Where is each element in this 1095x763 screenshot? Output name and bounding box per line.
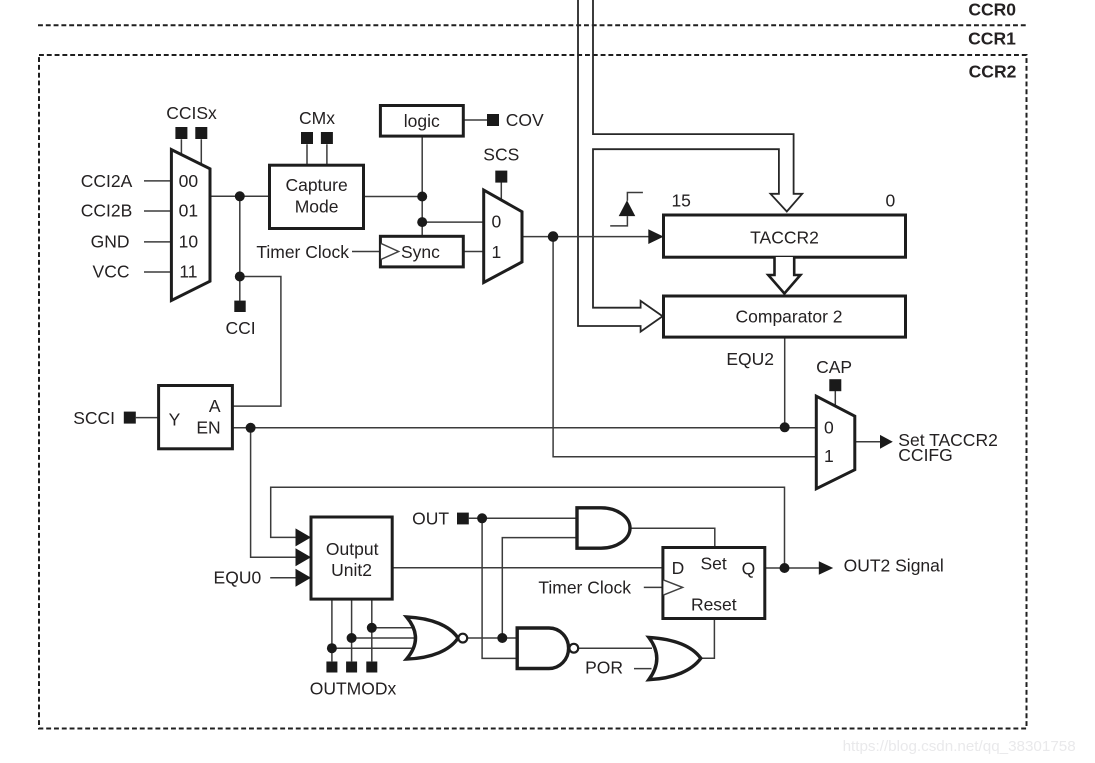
junction dot EQU2 / CAP mux 0	[780, 422, 790, 432]
svg-text:Set: Set	[700, 554, 726, 574]
NAND gate body	[517, 628, 568, 669]
input triangle 3 of Output Unit2 (EQU0)	[296, 569, 312, 587]
wire NOR output branch up to AND input	[502, 538, 577, 638]
arrow OUT2 Signal	[819, 561, 833, 574]
svg-text:A: A	[209, 396, 221, 416]
NOR gate bubble	[458, 634, 467, 643]
svg-text:OUT2 Signal: OUT2 Signal	[844, 556, 944, 576]
svg-text:D: D	[672, 558, 685, 578]
svg-text:Timer Clock: Timer Clock	[256, 242, 349, 262]
wire Q output	[765, 567, 819, 569]
comparator Comparator 2	[664, 296, 906, 337]
svg-text:01: 01	[179, 201, 198, 221]
AND gate	[577, 508, 630, 548]
wire CCI pin stub	[239, 277, 241, 301]
block Capture Mode	[270, 165, 364, 228]
input triangle 2 of Output Unit2	[296, 548, 312, 566]
block Sync	[380, 236, 463, 267]
pin square CMx 2	[321, 132, 333, 144]
wire EQU2 vertical	[784, 337, 786, 427]
wire CAP mux output	[855, 441, 881, 443]
svg-text:Capture: Capture	[285, 175, 347, 195]
junction dot NOR output	[497, 633, 507, 643]
junction dot OUTMOD 2	[347, 633, 357, 643]
wire NOR output to NAND input	[467, 637, 518, 639]
OR gate	[649, 637, 701, 679]
svg-text:EQU2: EQU2	[726, 349, 774, 369]
wire OR output to Reset	[701, 619, 715, 659]
svg-text:CCR1: CCR1	[968, 28, 1016, 48]
svg-text:CCR0: CCR0	[968, 0, 1016, 19]
input triangle 1 of Output Unit2	[296, 528, 312, 546]
hollow arrow TACCR2 to Comparator 2	[768, 257, 800, 294]
svg-text:Output: Output	[326, 539, 379, 559]
wire OUTMODx vertical 2	[351, 599, 353, 661]
pin square OUTMODx 2	[346, 662, 357, 673]
pin square CMx 1	[301, 132, 313, 144]
wire GND stub	[144, 241, 172, 243]
block logic	[380, 106, 463, 137]
mux CAP	[816, 396, 855, 489]
svg-text:GND: GND	[91, 231, 130, 251]
svg-text:CCI2B: CCI2B	[81, 201, 133, 221]
wire CCI2A stub	[144, 180, 172, 182]
wire Capture Mode output	[364, 196, 423, 198]
svg-text:10: 10	[179, 231, 199, 251]
wire NAND output to OR	[578, 647, 652, 649]
NOR gate body	[407, 617, 459, 659]
svg-text:Unit2: Unit2	[331, 560, 372, 580]
block Output Unit2	[311, 517, 392, 599]
pin square COV	[487, 114, 499, 126]
wire Sync output to SCS mux input 1	[463, 251, 483, 253]
clock triangle of flip-flop	[663, 580, 682, 595]
svg-text:CCIFG: CCIFG	[898, 445, 952, 465]
svg-text:CAP: CAP	[816, 357, 852, 377]
flip-flop D Set Q Reset	[663, 548, 765, 619]
pin square CCISx 1	[175, 127, 187, 139]
wire capture signal vertical to CAP mux input 1	[553, 237, 816, 457]
svg-text:EQU0: EQU0	[214, 568, 262, 588]
svg-text:TACCR2: TACCR2	[750, 228, 819, 248]
wire VCC stub	[144, 271, 172, 273]
capture edge symbol	[610, 193, 643, 226]
svg-text:Comparator 2: Comparator 2	[736, 306, 843, 326]
svg-text:CMx: CMx	[299, 108, 335, 128]
wire logic to COV pin	[463, 119, 487, 121]
pin square CCI	[234, 301, 245, 312]
junction dot CCIS mux output	[235, 191, 245, 201]
svg-text:OUTMODx: OUTMODx	[310, 679, 397, 699]
svg-text:Timer Clock: Timer Clock	[538, 578, 631, 598]
svg-text:logic: logic	[404, 111, 440, 131]
wire CMx pin stubs	[307, 144, 327, 165]
svg-text:EN: EN	[196, 418, 220, 438]
svg-text:CCI: CCI	[226, 318, 256, 338]
svg-text:POR: POR	[585, 658, 623, 678]
wire POR stub	[634, 668, 652, 670]
svg-text:Y: Y	[169, 410, 181, 430]
wire OUTMODx vertical 3	[371, 599, 373, 661]
wire Timer Clock stub to flip-flop	[644, 586, 663, 588]
junction dot SCS input 0	[417, 217, 427, 227]
wire SCS pin stub	[500, 182, 502, 200]
block Y A EN	[159, 386, 233, 449]
svg-text:00: 00	[179, 171, 199, 191]
svg-text:Reset: Reset	[691, 594, 737, 614]
wire CCI to A input	[232, 277, 281, 407]
wire CCIS mux output to Capture Mode	[210, 195, 270, 197]
arrow Set TACCR2 CCIFG	[880, 435, 893, 449]
pin square SCCI	[124, 412, 136, 424]
mux CCISx	[171, 150, 210, 301]
wire Timer Clock stub to Sync	[352, 251, 380, 253]
register TACCR2	[664, 215, 906, 257]
svg-text:0: 0	[492, 212, 502, 232]
svg-text:OUT: OUT	[412, 509, 449, 529]
svg-text:Mode: Mode	[295, 197, 339, 217]
wire OUT branch to NAND input	[482, 518, 517, 658]
svg-text:SCCI: SCCI	[73, 408, 115, 428]
junction dot Q output	[780, 563, 790, 573]
wire SCCI stub	[136, 417, 159, 419]
NAND gate bubble	[569, 644, 578, 653]
wire AND output to Set	[630, 528, 715, 548]
wire logic vertical	[421, 136, 423, 236]
wire Output Unit2 to D input	[392, 567, 663, 569]
wire OUTMODx to NOR inputs	[332, 628, 418, 648]
junction dot CCI	[235, 272, 245, 282]
pin square SCS	[495, 171, 507, 183]
wire EQU0 stub	[270, 577, 296, 579]
pin square CCISx 2	[195, 127, 207, 139]
mux SCS	[484, 190, 522, 282]
svg-text:15: 15	[671, 190, 690, 210]
wire SCS mux output to TACCR2	[522, 236, 649, 238]
junction dot capture/logic	[417, 192, 427, 202]
wire OUTMODx vertical 1	[331, 599, 333, 661]
svg-text:11: 11	[179, 262, 197, 282]
timer bus (16-bit, hollow arrows into TACCR2 and Comparator 2)	[578, 0, 802, 332]
dashed divider CCR0/CCR1	[38, 24, 1027, 26]
svg-text:1: 1	[492, 242, 502, 262]
wire EN branch down to Output Unit2	[251, 428, 297, 558]
svg-text:Q: Q	[742, 558, 756, 578]
svg-text:0: 0	[824, 418, 834, 438]
wire EN output to CAP mux input 0	[232, 427, 816, 429]
buffer triangle in Sync	[381, 243, 399, 259]
svg-text:CCISx: CCISx	[166, 103, 217, 123]
svg-text:COV: COV	[506, 110, 544, 130]
junction dot OUT	[477, 513, 487, 523]
svg-text:CCR2: CCR2	[969, 62, 1017, 82]
wire OUT to AND input	[469, 517, 578, 519]
wire to SCS mux input 0	[422, 221, 484, 223]
svg-text:https://blog.csdn.net/qq_38301: https://blog.csdn.net/qq_38301758	[843, 738, 1076, 755]
wire CCI2B stub	[144, 210, 172, 212]
wire CCISx pin stubs	[181, 139, 201, 165]
dashed box CCR2	[39, 55, 1027, 729]
pin square OUTMODx 3	[366, 662, 377, 673]
junction dot OUTMOD 3	[367, 623, 377, 633]
wire CCI vertical branch	[239, 196, 241, 276]
pin square CAP	[829, 379, 841, 391]
junction dot OUTMOD 1	[327, 643, 337, 653]
junction dot EN	[246, 423, 256, 433]
junction dot SCS output	[548, 231, 559, 242]
wire OUT2 feedback to Output Unit2	[271, 487, 785, 568]
svg-text:SCS: SCS	[483, 144, 519, 164]
filled arrow into TACCR2	[648, 229, 663, 244]
svg-text:CCI2A: CCI2A	[81, 171, 133, 191]
svg-text:VCC: VCC	[93, 262, 130, 282]
wire CAP pin stub	[834, 391, 836, 407]
pin square OUT	[457, 513, 469, 525]
pin square OUTMODx 1	[326, 662, 337, 673]
svg-text:1: 1	[824, 446, 834, 466]
svg-text:Sync: Sync	[401, 242, 440, 262]
svg-text:0: 0	[886, 191, 896, 211]
